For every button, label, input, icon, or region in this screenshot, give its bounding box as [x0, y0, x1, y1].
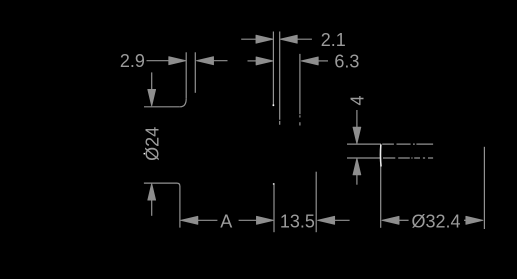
fillet arc bushing to flange — [180, 99, 186, 107]
dim 6.3 left arrowhead — [256, 57, 273, 65]
svg-text:2.9: 2.9 — [120, 51, 145, 71]
extension line 13.5 right — [315, 172, 317, 233]
svg-text:2.1: 2.1 — [321, 30, 346, 50]
extension line shaft right edge — [299, 54, 301, 126]
dim dia32.4 left arrowhead — [382, 216, 399, 224]
dim 2.1 left arrowhead — [256, 35, 273, 43]
dim 4 bottom arrowhead — [353, 158, 361, 175]
dim A left arrowhead — [181, 216, 198, 224]
dim 2.9 arrowhead — [169, 57, 186, 65]
dim 6.3 left leader line — [248, 60, 263, 62]
flange top outline — [144, 106, 180, 108]
svg-text:4: 4 — [348, 95, 368, 105]
flange bottom outline with corner — [144, 183, 180, 228]
extension line body step — [273, 183, 275, 232]
extension line shaft slot left — [272, 32, 274, 107]
extension line bushing right — [194, 52, 196, 93]
dim dia24 bottom arrowhead — [148, 184, 156, 201]
dim 6.3 right leader line — [315, 60, 328, 62]
dim dia24 top arrow tail — [151, 72, 153, 94]
dim A right arrowhead — [257, 216, 274, 224]
dim 4 top arrow tail — [356, 110, 358, 133]
svg-text:6.3: 6.3 — [334, 51, 359, 71]
svg-text:13.5: 13.5 — [280, 212, 315, 232]
dim 4 bottom arrow tail — [356, 168, 358, 185]
svg-text:Ø32.4: Ø32.4 — [411, 212, 460, 232]
dim dia24 bottom arrow tail — [151, 195, 153, 216]
terminal top line solid — [347, 143, 381, 145]
highlight dot body step line top — [273, 183, 275, 185]
highlight sliver on dia32.4 left extension line — [379, 145, 382, 167]
extension line shaft slot right — [279, 32, 281, 125]
dim 13.5 right arrow tail — [330, 219, 350, 221]
dim 2.9 right arrowhead — [197, 57, 214, 65]
terminal top centerline dashes — [382, 143, 433, 145]
extension line dia32.4 left — [380, 144, 382, 228]
extension line dia32.4 right — [483, 147, 485, 229]
dim A left leader line — [193, 219, 218, 221]
dim 2.1 right leader line — [292, 38, 312, 40]
dim dia24 top arrowhead — [148, 89, 156, 106]
dim 6.3 right arrowhead — [301, 57, 318, 65]
dim dia32.4 right arrowhead — [466, 216, 483, 224]
dim 2.1 left leader line — [241, 38, 259, 40]
dim dia32.4 right arrow tail — [464, 219, 471, 221]
terminal bottom centerline dashes — [383, 157, 433, 159]
dim 4 top arrowhead — [353, 127, 361, 144]
dim dia32.4 left arrow tail — [394, 219, 409, 221]
dim 2.9 right leader line — [208, 60, 228, 62]
dim 13.5 right arrowhead — [318, 216, 335, 224]
svg-text:Ø24: Ø24 — [142, 127, 162, 161]
extension line bushing left — [185, 52, 187, 98]
dim 2.1 right arrowhead — [280, 35, 297, 43]
highlight dot on dia24 symbol — [144, 153, 146, 155]
terminal bottom line solid — [347, 157, 381, 159]
dim 2.9 leader line — [147, 60, 176, 62]
svg-text:A: A — [220, 211, 232, 231]
highlight dot shaft slot line end — [273, 104, 275, 106]
dim A right leader line — [239, 219, 262, 221]
